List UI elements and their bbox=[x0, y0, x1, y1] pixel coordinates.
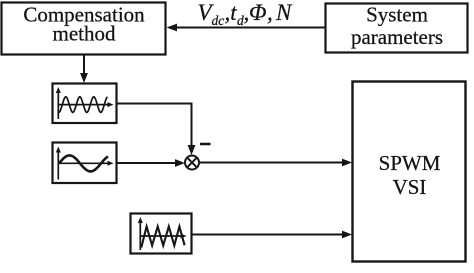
waveform: fundamental sine in sine block bbox=[59, 155, 108, 171]
arrowhead into SPWM VSI (lower) bbox=[342, 231, 352, 239]
svg-text:method: method bbox=[53, 22, 116, 46]
block: reference waveform (modulated sine) bbox=[53, 84, 117, 124]
block: SPWM VSI bbox=[353, 82, 466, 262]
svg-text:parameters: parameters bbox=[351, 25, 443, 49]
wire: reference block to summing junction (L-shape) bbox=[117, 104, 192, 147]
wire: carrier block to SPWM VSI bbox=[192, 234, 344, 236]
arrowhead into Compensation method bbox=[167, 24, 178, 32]
arrowhead into reference block bbox=[80, 73, 88, 83]
arrowhead into summing junction top bbox=[188, 145, 196, 155]
label: SPWM VSI text bbox=[379, 151, 441, 199]
wire: sine block to summing junction bbox=[117, 162, 177, 164]
block: fundamental sine wave bbox=[53, 143, 117, 184]
wire: System parameters to Compensation method bbox=[176, 27, 325, 29]
svg-text:System: System bbox=[366, 3, 428, 27]
svg-text:,t: ,t bbox=[225, 0, 238, 25]
label: Vdc, td, Phi, N parameters bbox=[198, 0, 294, 28]
summing junction (circle with X) bbox=[185, 156, 199, 170]
axes of sine block bbox=[58, 150, 110, 180]
minus sign at summing junction bbox=[200, 143, 211, 146]
label: Compensation method text bbox=[23, 3, 145, 46]
block: System parameters bbox=[326, 4, 468, 53]
svg-text:dc: dc bbox=[212, 13, 225, 28]
axes of carrier block bbox=[140, 220, 183, 250]
wire: Compensation method down to reference block bbox=[83, 55, 85, 74]
block: Compensation method bbox=[2, 3, 166, 55]
arrowhead into SPWM VSI (upper) bbox=[342, 159, 352, 167]
svg-text:VSI: VSI bbox=[393, 175, 427, 199]
axes of reference block bbox=[58, 90, 110, 119]
svg-text:N: N bbox=[275, 0, 293, 25]
waveform: modulated sine in reference block bbox=[59, 97, 108, 113]
svg-text:,: , bbox=[267, 0, 273, 25]
wire: summing junction to SPWM VSI bbox=[199, 162, 343, 164]
waveform: triangle carrier in carrier block bbox=[141, 227, 184, 248]
label: System parameters text bbox=[351, 3, 443, 49]
arrowhead into summing junction left bbox=[175, 159, 185, 167]
svg-text:SPWM: SPWM bbox=[379, 151, 441, 175]
svg-text:Φ: Φ bbox=[249, 0, 267, 25]
block: triangular carrier wave bbox=[131, 214, 192, 254]
